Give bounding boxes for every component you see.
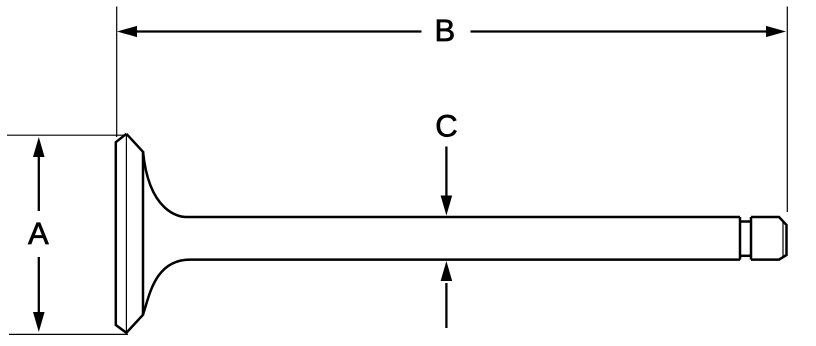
svg-text:A: A — [28, 216, 49, 251]
svg-text:B: B — [434, 13, 455, 48]
svg-text:C: C — [435, 108, 457, 143]
